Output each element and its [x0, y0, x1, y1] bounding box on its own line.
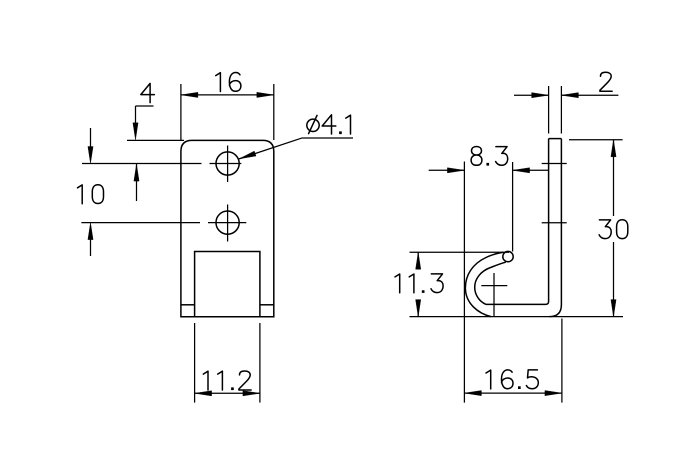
dim 16.5: left arrowhead	[464, 391, 481, 396]
dim text "11.2"	[203, 371, 251, 390]
dim 11.2: right extension line	[259, 323, 261, 403]
dim 8.3: left arrowhead (points right)	[447, 168, 464, 173]
dim 8.3: right arrowhead (points left)	[513, 168, 530, 173]
dim 16: left extension line	[180, 84, 182, 140]
dim 2: right arrow tail	[561, 94, 618, 96]
dim 4: leader from shoulder	[135, 106, 137, 127]
dim 30: top arrowhead (up)	[611, 140, 616, 157]
dim 10: lower arrowhead (up)	[88, 223, 93, 240]
front view: right bend line	[260, 304, 274, 306]
dim 30: dimension line upper segment	[613, 140, 615, 216]
leader line to hole 1	[239, 138, 303, 159]
dim 11.2: right arrowhead	[243, 391, 260, 396]
leader arrowhead at hole 1	[239, 151, 256, 159]
dim 2: left arrowhead (points right)	[532, 93, 549, 98]
dim 2: right extension line	[560, 86, 562, 134]
dim 8.3 / 16.5: long left extension line	[463, 162, 465, 403]
side view: curl inner curve	[475, 262, 506, 304]
dim text "8.3"	[471, 147, 508, 166]
hole 2 centerline tick on plate	[542, 222, 567, 224]
hole 1 (ø4.1) circle	[216, 152, 239, 175]
dim 11.3: bottom arrowhead (down)	[416, 300, 421, 317]
hole 2 circle	[216, 211, 239, 234]
dim 4: text shoulder line	[136, 105, 154, 107]
dim 10: upper arrowhead (down)	[88, 147, 93, 164]
dim 30: top extension line	[569, 139, 623, 141]
side view: plate outer (right) edge with bottom corner radius	[549, 139, 561, 317]
hole 2 vertical centerline	[227, 205, 229, 242]
front view: bent tab (inner rectangle)	[195, 252, 260, 317]
dim 16: right extension line	[273, 84, 275, 140]
dim 11.2: left arrowhead	[195, 391, 212, 396]
curl center mark vertical	[493, 273, 495, 317]
dim 30: dimension line lower segment	[613, 242, 615, 317]
hole 2 horizontal centerline (left segment)	[81, 222, 200, 224]
dim 4: lower arrowhead (up)	[134, 164, 139, 181]
side view: curl outer curve	[465, 252, 503, 316]
hole 1 centerline tick on plate	[542, 163, 567, 165]
hole 1 horizontal centerline (left segment)	[82, 163, 202, 165]
dim text "30"	[599, 220, 628, 239]
dim 8.3: right extension line	[512, 162, 514, 252]
dim 16.5: right arrowhead	[545, 391, 562, 396]
front view: left bend line	[181, 304, 195, 306]
dim 8.3: left arrow tail	[429, 169, 465, 171]
dim 16: right arrowhead	[257, 92, 274, 97]
bottom edge + extension line (11.3/30/16.5 bottom)	[410, 316, 624, 318]
dim 11.2: left extension line	[194, 323, 196, 403]
bracket front view: outline (rounded top corners)	[181, 140, 274, 316]
curl center mark horizontal	[481, 285, 507, 287]
dim 4: upper arrowhead (down)	[133, 123, 138, 140]
dim 10: lower arrow tail	[90, 239, 92, 256]
dim 4: top-edge extension line	[127, 139, 184, 141]
dim text "16.5"	[486, 370, 538, 389]
hole 1 vertical centerline	[227, 146, 229, 183]
dim 11.3: lower segment	[417, 300, 419, 317]
dim 4: lower arrow tail	[136, 164, 138, 201]
dim 2: right arrowhead (points left)	[561, 93, 578, 98]
hole 1 horizontal centerline (right segment)	[210, 163, 242, 165]
dim text "2"	[600, 72, 612, 91]
dim 16: dimension line	[181, 94, 274, 96]
curl sheet end (tip circle)	[503, 251, 513, 261]
dim text "11.3"	[395, 274, 443, 293]
dim 8.3: right arrow tail	[513, 169, 549, 171]
dim 11.3: upper segment	[417, 252, 419, 269]
dim 2: left extension line	[548, 86, 550, 134]
dim 2: left arrow tail	[514, 94, 549, 96]
dim 11.2: dimension line	[195, 392, 260, 394]
dim 11.3: top arrowhead (up)	[416, 252, 421, 269]
dim text "4"	[141, 83, 155, 102]
dim 16: left arrowhead	[181, 92, 198, 97]
dim 11.3: top extension line	[410, 251, 510, 253]
dim 30: bottom arrowhead (down)	[611, 300, 616, 317]
leader text underline	[303, 137, 354, 139]
hole 2 horizontal centerline (right segment)	[208, 222, 246, 224]
dim text "10"	[78, 185, 104, 204]
side view: plate inner (left) edge and flange inner surface	[486, 139, 549, 305]
dim 16.5: dimension line	[464, 392, 562, 394]
dim 16.5: right extension line	[561, 319, 563, 403]
dim text "ø4.1"	[307, 115, 351, 134]
side view: plate top edge	[549, 138, 562, 140]
dim 10: upper arrow tail	[90, 128, 92, 147]
dim text "16"	[216, 73, 241, 92]
